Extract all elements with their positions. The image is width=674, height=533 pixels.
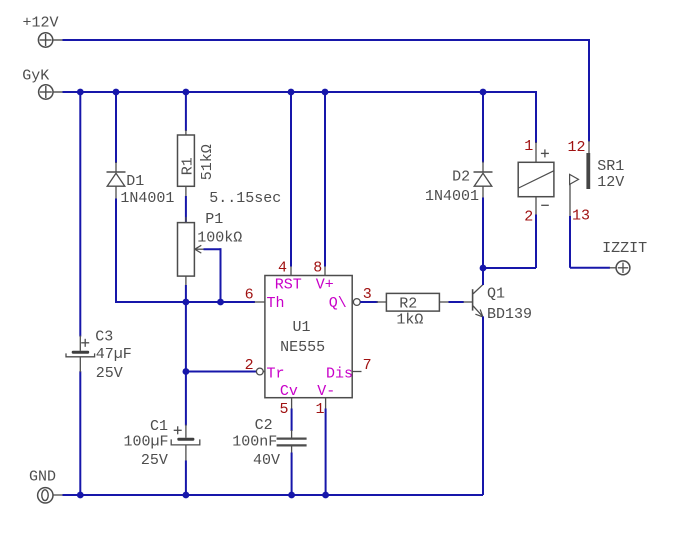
transistor Q1 BD139	[463, 284, 532, 323]
wire R2 to Q1 base	[449, 301, 464, 303]
svg-text:C3: C3	[95, 329, 113, 346]
node junction GyK/pin4	[288, 89, 295, 96]
node junction D2/relay/Q1	[480, 265, 487, 272]
svg-text:8: 8	[313, 259, 322, 276]
svg-text:R2: R2	[399, 296, 417, 313]
svg-text:C2: C2	[255, 417, 273, 434]
wire C2 bottom to GND	[291, 453, 293, 496]
svg-text:100kΩ: 100kΩ	[197, 229, 242, 246]
svg-text:GND: GND	[29, 469, 56, 486]
svg-text:V+: V+	[316, 277, 334, 294]
wire R1 to P1	[185, 196, 187, 224]
diode D2 1N4001	[425, 162, 493, 206]
wire C3 top lead	[79, 92, 81, 337]
capacitor C3 47uF 25V polarized	[66, 329, 132, 383]
svg-text:P1: P1	[205, 211, 223, 228]
svg-text:1N4001: 1N4001	[120, 190, 174, 207]
diode D1 1N4001	[107, 162, 175, 207]
wire C3 bottom lead to GND	[79, 371, 81, 495]
svg-text:5: 5	[280, 401, 289, 418]
svg-text:100µF: 100µF	[124, 434, 169, 451]
svg-text:Dis: Dis	[326, 366, 353, 383]
wire timing column down to C1	[185, 372, 187, 426]
svg-text:D1: D1	[126, 173, 144, 190]
capacitor C2 100nF 40V	[232, 417, 306, 469]
svg-text:Tr: Tr	[267, 366, 285, 383]
svg-text:Cv: Cv	[280, 383, 298, 400]
node junction GND/C1	[183, 492, 190, 499]
potentiometer P1 100k	[178, 211, 243, 287]
pin 1 V- stub	[325, 398, 327, 410]
node junction GyK/pin8	[322, 89, 329, 96]
svg-text:GyK: GyK	[22, 67, 49, 84]
node junction GyK/D2	[480, 89, 487, 96]
svg-text:1N4001: 1N4001	[425, 188, 479, 205]
svg-text:Q\: Q\	[329, 295, 347, 312]
wire GND rail	[63, 494, 484, 496]
svg-text:U1: U1	[293, 319, 311, 336]
wire pin 5 down to C2	[291, 409, 293, 432]
svg-text:5..15sec: 5..15sec	[209, 190, 281, 207]
svg-text:2: 2	[524, 208, 533, 225]
wire P1 wiper down to Th net	[220, 248, 222, 302]
wire Tr net horizontal to pin 2	[186, 371, 257, 373]
svg-text:Th: Th	[267, 295, 285, 312]
svg-text:1: 1	[316, 401, 325, 418]
wire P1 bottom to Th net	[185, 285, 187, 303]
wire pin 1 down to GND	[325, 409, 327, 496]
svg-text:V-: V-	[317, 383, 335, 400]
node junction GyK/D1	[113, 89, 120, 96]
wire pin 3 to R2	[360, 301, 378, 303]
resistor R2 1k	[377, 293, 450, 328]
node junction GND/C2	[288, 492, 295, 499]
wire GyK rail corner down to relay coil pin 1	[535, 91, 537, 143]
svg-text:7: 7	[363, 357, 372, 374]
svg-text:12V: 12V	[597, 174, 624, 191]
wire D1 anode down	[115, 199, 117, 304]
svg-text:3: 3	[363, 286, 372, 303]
pin 5 Cv stub	[291, 398, 293, 410]
wire relay pin 2 to node	[483, 267, 536, 269]
wire pin 4 up to GyK	[290, 92, 292, 267]
node junction Th/wiper	[217, 299, 224, 306]
terminal GND	[29, 469, 63, 503]
IC U1 NE555	[265, 276, 352, 398]
svg-text:RST: RST	[275, 277, 302, 294]
pin 4 RST stub	[290, 266, 292, 276]
wire R1 top lead	[185, 92, 187, 131]
svg-text:40V: 40V	[253, 452, 280, 469]
relay contact SR1 12V	[570, 141, 625, 217]
svg-text:1kΩ: 1kΩ	[396, 312, 423, 329]
wire D2 anode down to node	[482, 198, 484, 269]
svg-text:SR1: SR1	[597, 158, 624, 175]
wire arm to IZZIT	[570, 267, 610, 269]
wire D2 top lead	[482, 92, 484, 163]
svg-text:4: 4	[278, 259, 287, 276]
pin 3 Q\ stub with bubble	[352, 299, 360, 306]
wire GyK horizontal rail	[63, 91, 537, 93]
svg-text:BD139: BD139	[487, 306, 532, 323]
svg-text:51kΩ: 51kΩ	[199, 144, 216, 180]
wire timing column down to Tr	[185, 302, 187, 372]
wire pin 8 up to GyK	[324, 92, 326, 267]
wire +12V down to SR1 pin 12	[588, 39, 590, 142]
wire Q1 collector up	[482, 268, 484, 285]
capacitor C1 100uF 25V polarized	[124, 418, 200, 469]
wire Q1 emitter down to GND	[482, 317, 484, 496]
pin 7 Dis stub (unconnected)	[352, 371, 361, 373]
relay coil SR1 pin 1 lead	[535, 142, 537, 162]
terminal GyK	[22, 67, 63, 99]
wire Th net horizontal to pin 6	[115, 301, 255, 303]
svg-text:100nF: 100nF	[232, 434, 277, 451]
wire P1 wiper horizontal	[204, 248, 221, 250]
svg-text:Q1: Q1	[487, 286, 505, 303]
node junction GND/pin1	[322, 492, 329, 499]
svg-text:6: 6	[245, 286, 254, 303]
pin 2 Tr stub with bubble	[256, 368, 265, 375]
svg-text:D2: D2	[452, 168, 470, 185]
wire relay pin 2 down	[535, 215, 537, 269]
svg-text:IZZIT: IZZIT	[602, 240, 647, 257]
resistor R1 51k	[178, 130, 216, 198]
svg-text:NE555: NE555	[280, 339, 325, 356]
svg-text:1: 1	[524, 138, 533, 155]
wire +12V rail top	[63, 39, 590, 41]
node junction GyK/R1	[183, 89, 190, 96]
node junction GND/C3	[77, 492, 84, 499]
svg-text:2: 2	[245, 357, 254, 374]
terminal IZZIT	[602, 240, 647, 274]
wire contact arm down	[569, 216, 571, 268]
svg-text:R1: R1	[180, 157, 197, 175]
svg-text:13: 13	[572, 208, 590, 225]
relay coil	[518, 149, 554, 205]
node junction GyK/C3	[77, 89, 84, 96]
power terminal +12V	[23, 14, 64, 47]
svg-text:25V: 25V	[141, 452, 168, 469]
node junction Th/R-P column	[183, 299, 190, 306]
svg-text:+12V: +12V	[23, 14, 59, 31]
pin 6 Th stub	[255, 301, 265, 303]
pin 8 V+ stub	[324, 266, 326, 276]
node junction Tr wire	[183, 368, 190, 375]
svg-text:12: 12	[568, 139, 586, 156]
svg-text:47µF: 47µF	[96, 346, 132, 363]
svg-text:25V: 25V	[96, 365, 123, 382]
relay coil pin 2 lead	[535, 197, 537, 216]
wire C1 bottom to GND	[185, 461, 187, 496]
wire D1 top lead	[115, 92, 117, 163]
